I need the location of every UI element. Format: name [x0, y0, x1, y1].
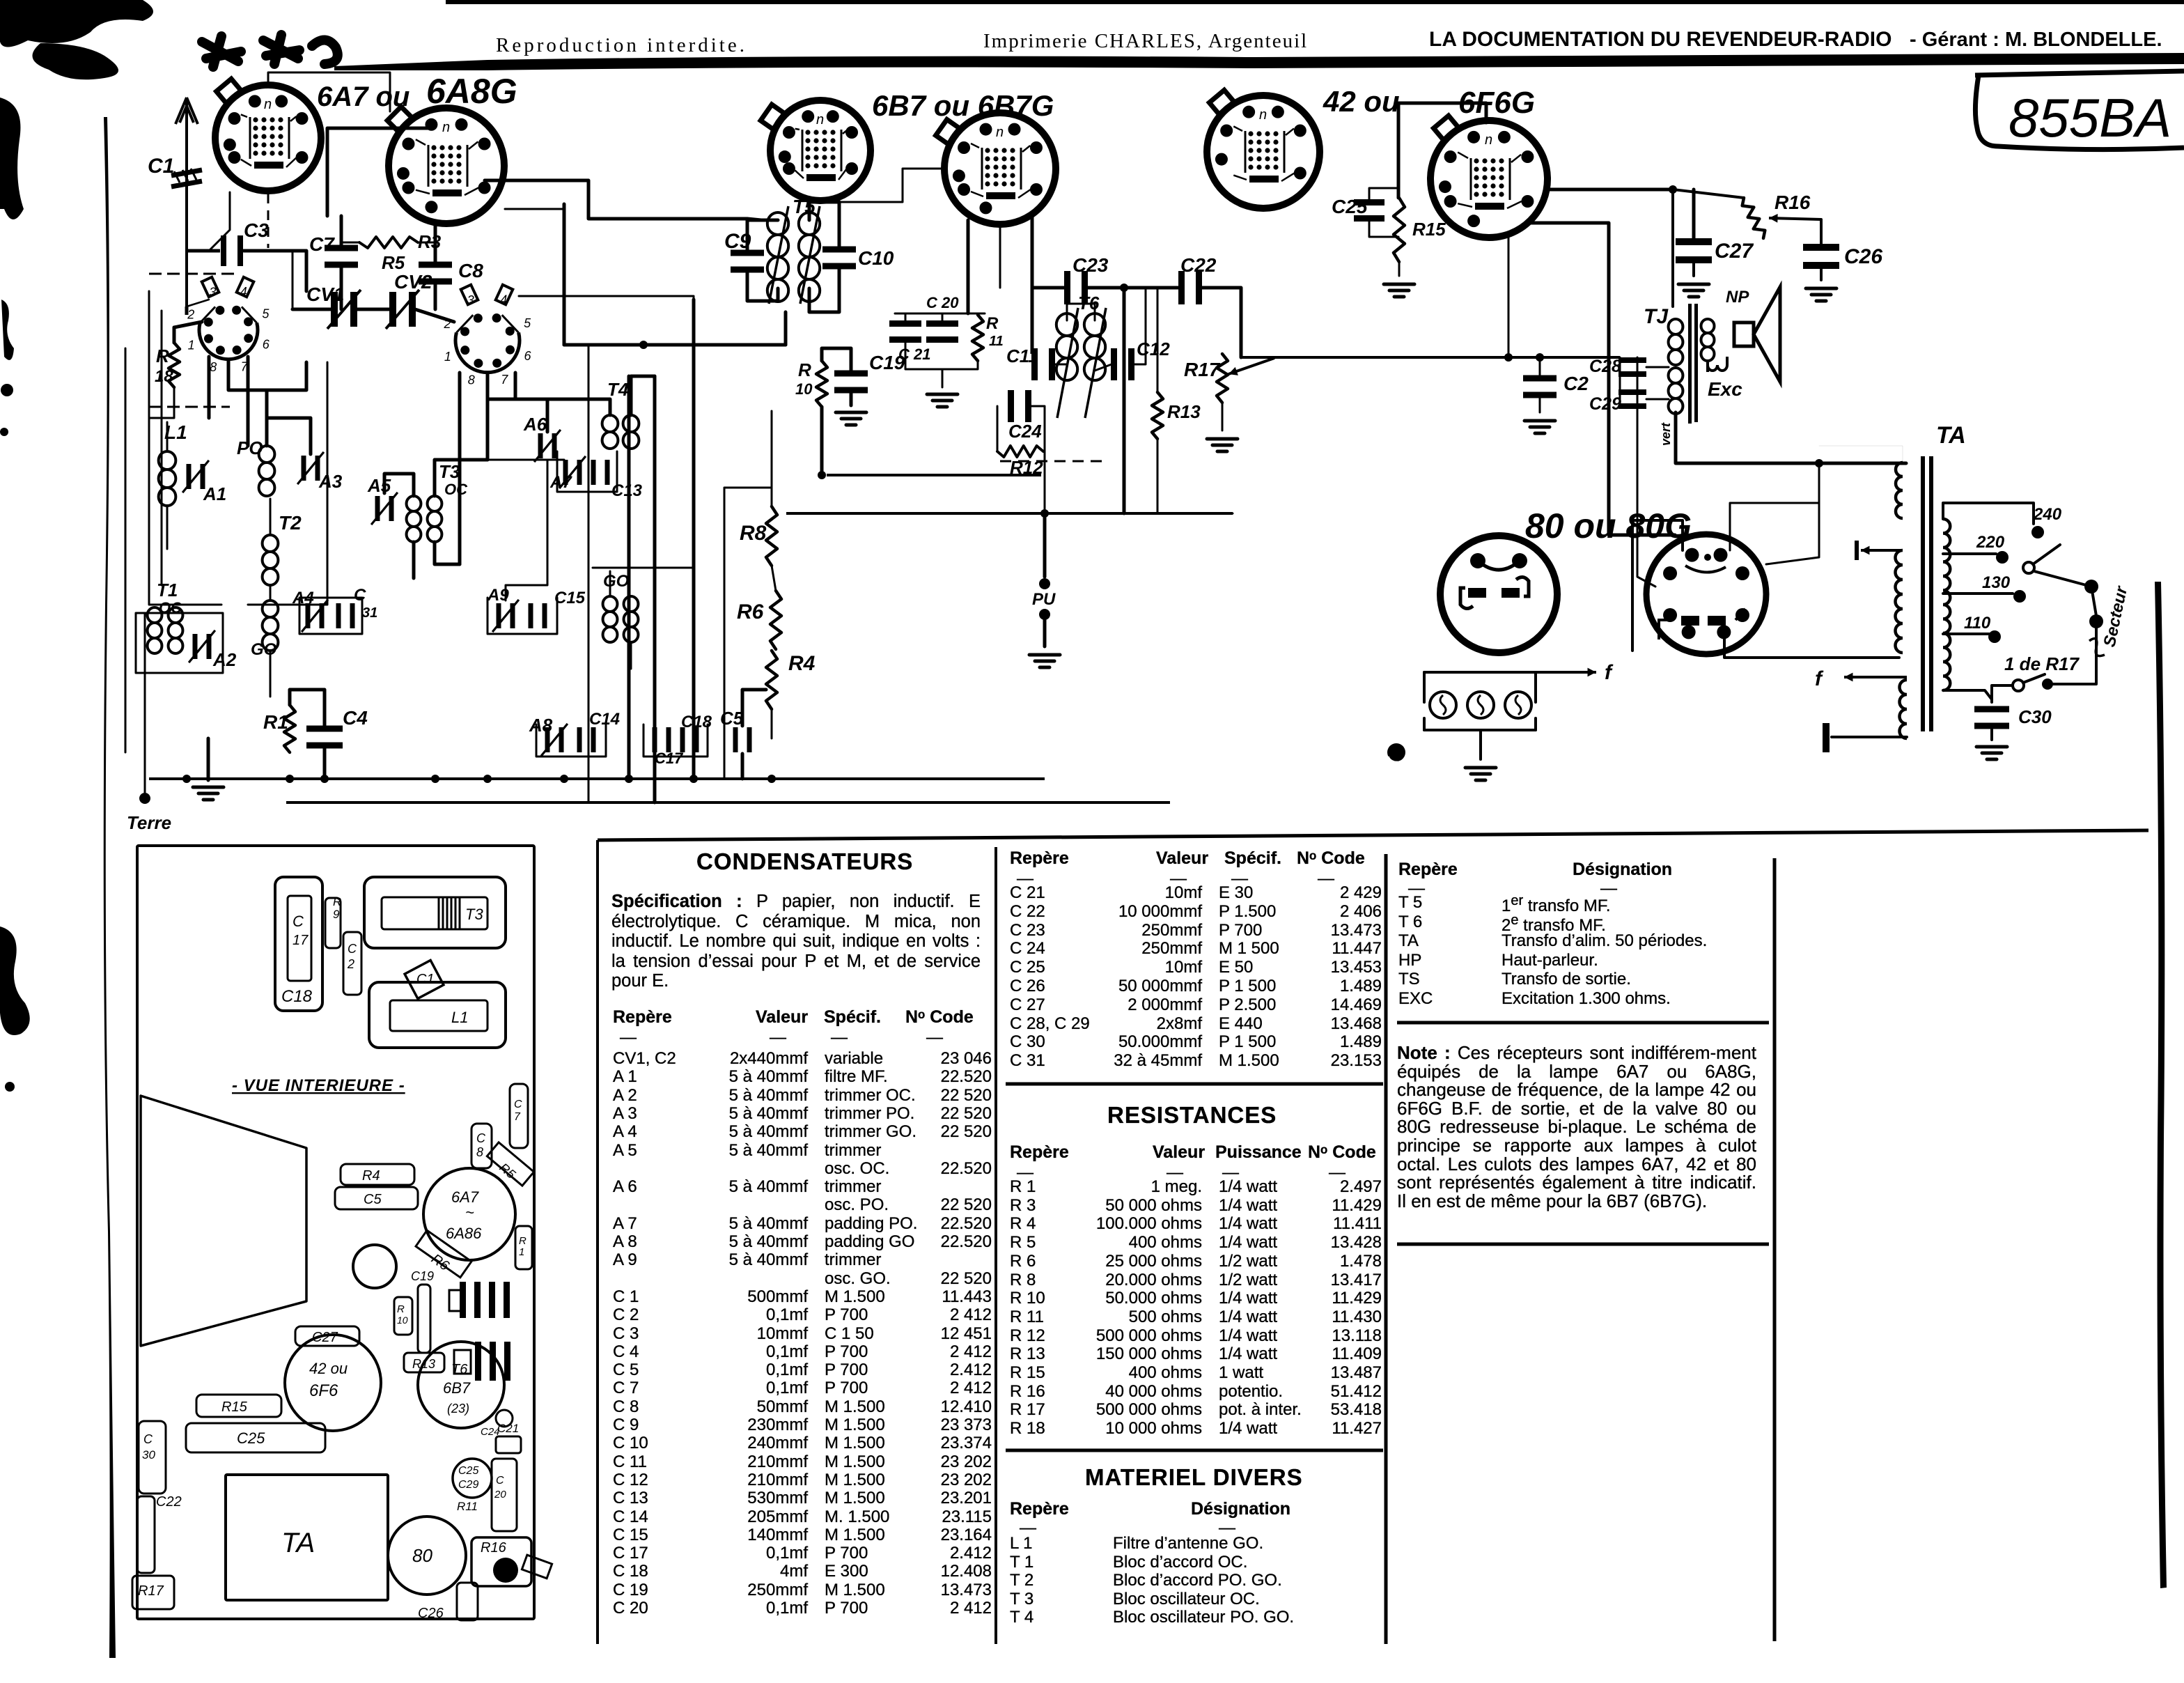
tap 240 dot	[2031, 526, 2044, 538]
capacitor C28	[1618, 357, 1646, 377]
chassis R10	[394, 1297, 412, 1335]
chassis T3 block	[364, 877, 506, 948]
capacitor C11	[1031, 348, 1055, 380]
capacitor C19	[834, 371, 868, 394]
capacitor C22	[1178, 271, 1202, 304]
svg-text:C26: C26	[418, 1606, 444, 1621]
capacitor C5	[733, 727, 752, 752]
wire T2 GO stems	[270, 499, 272, 535]
chassis tube 6B7 circle	[418, 1342, 504, 1428]
svg-text:A1: A1	[203, 483, 226, 504]
tube culot U5 42	[1207, 90, 1320, 208]
terre dot	[139, 793, 150, 804]
speaker	[1708, 287, 1780, 382]
wire x1614 vertical	[1123, 288, 1126, 513]
chassis trimmer bank 1 frame	[449, 1290, 463, 1311]
svg-text:Reproduction interdite.: Reproduction interdite.	[496, 34, 747, 56]
ground C20 cluster	[927, 394, 958, 407]
chassis R9	[325, 898, 341, 948]
wire vertical x810	[563, 204, 566, 345]
wire R16 top from B8	[1673, 189, 1744, 198]
svg-text:11: 11	[989, 334, 1004, 349]
svg-text:R15: R15	[1412, 219, 1446, 240]
T5 tuning arrows	[769, 206, 820, 304]
resistor R17	[1217, 354, 1228, 403]
svg-text:C17: C17	[655, 750, 684, 767]
wire vertical x996	[692, 300, 696, 779]
wire horizontal y425 S2 right	[519, 296, 694, 300]
chassis R16 box	[471, 1537, 531, 1586]
capacitor C26	[1803, 244, 1839, 269]
capacitor C30	[1974, 706, 2009, 729]
chassis R4	[341, 1164, 414, 1185]
svg-text:10: 10	[397, 1314, 408, 1326]
wire R1 C4 top	[290, 690, 325, 727]
wire bus B2	[786, 512, 1233, 515]
svg-text:8: 8	[468, 373, 475, 387]
EXC core	[1688, 362, 1692, 424]
ground C27	[1678, 284, 1709, 297]
TA wires top	[1819, 446, 1903, 463]
wire y660 extension	[487, 459, 564, 461]
tap 110 dot	[1988, 630, 2001, 643]
svg-text:Exc: Exc	[1708, 378, 1742, 400]
chassis C17 inner	[288, 896, 311, 981]
svg-text:42 ou: 42 ou	[309, 1360, 348, 1377]
svg-text:GO: GO	[603, 572, 630, 591]
wire 6F6G right pin B8	[1547, 188, 1673, 192]
svg-text:C23: C23	[1072, 254, 1109, 276]
wire T1 box	[136, 613, 223, 673]
svg-text:18: 18	[155, 367, 173, 386]
wire vertical x786 down	[506, 461, 547, 600]
svg-text:T3: T3	[439, 461, 460, 482]
wire A7 C13 bus	[557, 451, 617, 492]
wire C24 R12 frame	[997, 406, 999, 451]
capacitor C10	[822, 247, 856, 270]
chassis L1 inner	[390, 1000, 487, 1031]
PU terminal bottom	[1039, 609, 1050, 620]
wire S1 top tails	[187, 300, 209, 307]
chassis trimmer bank 1	[460, 1282, 510, 1318]
coil T1 secondary	[169, 607, 183, 653]
left margin speck c	[1, 384, 13, 396]
svg-text:A5: A5	[367, 475, 391, 496]
left margin blob d (lower)	[0, 926, 30, 1035]
svg-text:C18: C18	[281, 987, 313, 1006]
wire R5 ends	[341, 242, 359, 244]
svg-text:C 21: C 21	[898, 346, 930, 363]
TJ core	[1688, 304, 1698, 422]
wire L1 stems	[166, 422, 169, 451]
wire R8 chain	[771, 411, 773, 506]
svg-text:C24: C24	[1008, 421, 1042, 442]
coil L1 loops	[159, 451, 176, 506]
trimmer A6	[538, 433, 557, 458]
wire R13 stems	[1157, 288, 1159, 392]
svg-text:n: n	[1485, 132, 1492, 148]
ground C26	[1820, 267, 1823, 280]
capacitor C3	[221, 235, 243, 266]
resistor R18	[169, 343, 180, 387]
wire tube2 top to tube1 area	[268, 72, 390, 111]
wire R10 bottom	[820, 407, 824, 475]
chassis tube 80 circle	[388, 1517, 466, 1595]
svg-text:L1: L1	[451, 1009, 468, 1026]
top-left ink blob	[0, 0, 153, 47]
svg-text:f: f	[1815, 667, 1824, 690]
capacitor C18	[653, 727, 671, 752]
svg-text:TA: TA	[1936, 422, 1966, 449]
svg-text:- VUE INTERIEURE -: - VUE INTERIEURE -	[232, 1076, 405, 1095]
capacitor C20	[926, 320, 958, 343]
wire R18 top	[174, 322, 202, 343]
chassis tuning gang trapezoid	[141, 1096, 306, 1346]
arrow TA f	[1844, 673, 1907, 682]
wire lower bus B1b	[286, 801, 1170, 804]
trimmer A2	[193, 634, 212, 659]
top-left ink blob 2	[32, 43, 118, 79]
capacitor C2	[1523, 375, 1557, 398]
sheet number box 855BA	[1975, 71, 2184, 75]
coil PO	[259, 446, 275, 496]
tube culot U4 6B7G	[936, 113, 1056, 224]
tube culot U6 6F6G	[1430, 116, 1547, 238]
svg-text:CV1: CV1	[306, 284, 344, 305]
svg-text:C22: C22	[1180, 254, 1217, 276]
svg-text:NP: NP	[1726, 288, 1749, 307]
shield box left input 2	[161, 311, 163, 585]
tap 220 dot	[1996, 551, 2008, 564]
chassis C28 C29 circle	[453, 1459, 492, 1498]
trimmer A3	[302, 456, 320, 481]
chassis small circle C24	[496, 1410, 513, 1427]
svg-text:n: n	[996, 125, 1004, 140]
wire R10 C19 top	[822, 348, 851, 371]
coil T2 upper loops	[263, 535, 279, 585]
wire C11 to T6	[1055, 364, 1067, 366]
svg-text:20: 20	[494, 1489, 506, 1500]
svg-text:C29: C29	[1589, 394, 1621, 414]
svg-text:7: 7	[514, 1111, 521, 1123]
svg-text:Secteur: Secteur	[2100, 584, 2131, 649]
svg-text:n: n	[1259, 107, 1267, 123]
wire bus B4	[1241, 356, 1620, 359]
svg-text:R11: R11	[457, 1500, 478, 1513]
svg-text:240: 240	[2033, 505, 2062, 524]
ground stub below T1	[207, 738, 210, 780]
wire tube1 drop dashes	[267, 194, 270, 248]
left margin speck e	[5, 1082, 15, 1092]
cluster bus C20 C21 R11	[895, 313, 985, 315]
svg-text:855BA: 855BA	[2008, 87, 2171, 148]
wire T5 to 6B7G grid	[839, 169, 944, 202]
svg-text:A3: A3	[318, 471, 343, 492]
svg-text:C1: C1	[416, 972, 435, 987]
svg-text:n: n	[442, 120, 450, 135]
chassis C21 box	[496, 1436, 521, 1453]
capacitor CV marks	[680, 727, 699, 752]
wire TA filament bottom	[1832, 736, 1907, 738]
lamp 2	[1467, 692, 1494, 718]
svg-text:6: 6	[263, 338, 270, 352]
chassis R16 lug	[522, 1555, 552, 1579]
svg-text:GO: GO	[251, 640, 277, 659]
capacitor C13	[591, 460, 610, 485]
svg-text:42 ou: 42 ou	[1323, 85, 1400, 118]
wire T4 top	[487, 399, 610, 415]
capacitor C8	[419, 262, 452, 285]
wire GO top bus	[593, 567, 694, 569]
capacitor C7	[325, 245, 358, 268]
trimmer A7	[563, 460, 582, 485]
wire x2351	[1637, 357, 1655, 587]
table vertical rule left	[596, 840, 599, 1644]
svg-text:R1: R1	[263, 711, 288, 733]
chassis C17 C18 can	[275, 877, 322, 1011]
capacitor C27	[1676, 238, 1712, 263]
dial lamps box	[1424, 671, 1536, 674]
wire dashed AVC	[1000, 460, 1105, 463]
svg-text:T2: T2	[279, 512, 302, 534]
wire tube2 left pin to left	[327, 128, 430, 216]
wire tube2 bottom-right to AVC	[505, 208, 564, 210]
chassis R17 box	[132, 1576, 174, 1609]
wire tube2 right pin step to T5	[485, 180, 761, 220]
svg-text:(23): (23)	[447, 1402, 469, 1416]
svg-text:PU: PU	[1032, 590, 1056, 609]
trimmer A1	[187, 464, 205, 489]
C30 ground	[1990, 729, 1993, 740]
junction dots on bus	[182, 775, 191, 783]
arrow filament f	[1536, 668, 1596, 677]
svg-text:T4: T4	[607, 379, 629, 400]
svg-text:R13: R13	[412, 1357, 435, 1371]
wire R15 top loop	[1398, 103, 1486, 198]
ground C26	[1806, 288, 1836, 301]
wire B8 down to C27	[1692, 189, 1696, 240]
svg-text:T1: T1	[157, 580, 178, 600]
shield box outer vertical	[125, 348, 127, 752]
wire TJ bottom to TA B11	[1676, 412, 1906, 463]
wire interrupter to C30	[1992, 685, 2013, 702]
resistor R13	[1152, 392, 1163, 439]
svg-text:R6: R6	[737, 600, 764, 623]
left margin blob a	[0, 98, 24, 219]
chassis tube 42 circle	[285, 1335, 381, 1431]
svg-text:TA: TA	[281, 1528, 315, 1558]
ground R15	[1398, 262, 1401, 276]
lamp 1	[1430, 692, 1456, 718]
resistor R15	[1394, 198, 1405, 262]
rule under R18	[1006, 1449, 1383, 1452]
svg-text:1: 1	[519, 1246, 524, 1258]
chassis R1 box right	[515, 1226, 532, 1269]
svg-text:R: R	[333, 895, 341, 908]
wire A4 C31 bus	[299, 598, 362, 634]
ground R17	[1207, 439, 1238, 451]
wire antenna to C3 node	[187, 249, 220, 253]
chassis R15 box	[196, 1395, 281, 1417]
wire AVC bus B5	[564, 343, 786, 347]
svg-text:C19: C19	[411, 1269, 434, 1283]
wire T3 bottoms	[412, 542, 416, 578]
table vertical rule mid1	[994, 847, 997, 1644]
svg-text:30: 30	[142, 1448, 155, 1461]
table vertical rule mid2	[1384, 854, 1388, 1644]
wire B11 drop to socket	[1766, 463, 1819, 564]
trimmer A5	[375, 496, 394, 521]
arrow R16 wiper	[1769, 214, 1821, 223]
capacitor C9	[731, 250, 764, 273]
secteur dot 2	[2089, 614, 2103, 628]
chassis C30 can	[139, 1421, 166, 1494]
svg-text:10: 10	[795, 380, 813, 398]
capacitor C25	[1354, 199, 1384, 222]
page top printed rule	[334, 53, 2184, 70]
wire R17 bottom ground	[1222, 403, 1224, 431]
coil TA secondary	[1943, 519, 1950, 690]
wire PU drop	[1043, 513, 1047, 577]
svg-text:C25: C25	[1332, 196, 1368, 217]
coil T4 secondary	[623, 415, 639, 449]
svg-text:C: C	[143, 1432, 153, 1446]
svg-text:6F6: 6F6	[309, 1381, 338, 1400]
svg-text:C3: C3	[244, 219, 269, 241]
wire tube1 side drop	[209, 192, 230, 251]
resistor R1	[284, 705, 295, 752]
left page border bar	[104, 117, 116, 1658]
resistor R10	[816, 361, 827, 407]
svg-text:C: C	[514, 1099, 522, 1110]
wire vertical x903	[627, 376, 631, 779]
coil T6 secondary	[1084, 313, 1105, 380]
ground C30	[1976, 747, 2007, 759]
wire secteur down to interrupter	[2050, 621, 2096, 684]
svg-text:6B7: 6B7	[443, 1379, 471, 1397]
resistor R16	[1742, 198, 1765, 238]
wire 6F6G cathode drop	[1508, 234, 1510, 357]
ground C2	[1524, 421, 1555, 433]
coil T5 primary	[767, 212, 788, 302]
chassis outer box	[137, 846, 534, 1619]
svg-text:TJ: TJ	[1644, 305, 1669, 328]
svg-text:130: 130	[1982, 573, 2011, 592]
wire S2 drops	[458, 373, 462, 564]
lamps bottom bus	[1423, 718, 1426, 730]
trimmer CV1	[331, 292, 357, 327]
svg-text:5: 5	[524, 316, 531, 330]
svg-text:C27: C27	[1715, 240, 1754, 263]
svg-text:31: 31	[362, 605, 377, 621]
svg-text:R17: R17	[1184, 359, 1221, 380]
table top rule	[598, 830, 2148, 840]
svg-text:C4: C4	[343, 707, 368, 729]
ground symbol input	[193, 787, 224, 800]
coil GO loops	[263, 600, 279, 651]
wire R8 left branch	[724, 488, 772, 513]
PU terminal top	[1039, 578, 1050, 589]
svg-text:C7: C7	[309, 233, 335, 255]
svg-text:R4: R4	[362, 1168, 380, 1184]
wire C3 to CV1	[292, 251, 294, 309]
svg-text:C8: C8	[458, 260, 483, 281]
svg-text:C28: C28	[1589, 357, 1621, 376]
tap 130 dot	[2013, 590, 2026, 603]
chassis T3 inner	[382, 897, 487, 929]
svg-text:8: 8	[210, 360, 217, 374]
rule under EXC	[1397, 1021, 1769, 1025]
chassis R6 tilted	[416, 1230, 471, 1278]
coil EXC	[1669, 368, 1683, 414]
resistor R11	[972, 315, 983, 361]
coil TJ primary	[1669, 319, 1683, 365]
wire C23 C22 bus B7	[1032, 286, 1064, 290]
resistor R6	[770, 591, 781, 649]
chassis C5	[335, 1187, 418, 1209]
wire CV row	[292, 308, 331, 311]
chassis C20 strip	[492, 1459, 517, 1531]
svg-text:f: f	[1605, 661, 1614, 684]
svg-text:17: 17	[292, 933, 309, 948]
svg-text:C15: C15	[554, 589, 586, 607]
svg-text:T5: T5	[793, 196, 816, 217]
wire C28 C29 to EXC	[1619, 357, 1621, 367]
bus B2 to right extension	[1124, 513, 1233, 515]
coil T4 primary	[602, 415, 618, 449]
svg-text:C11: C11	[1006, 346, 1038, 366]
svg-text:C: C	[354, 586, 366, 605]
svg-text:6A7 ou: 6A7 ou	[317, 82, 409, 112]
svg-text:n: n	[264, 97, 272, 112]
TA core	[1921, 456, 1933, 731]
svg-text:OC: OC	[444, 481, 468, 498]
chassis C19 strip	[418, 1285, 430, 1353]
coil T6 primary	[1056, 313, 1077, 380]
svg-text:R8: R8	[740, 522, 767, 545]
svg-text:n: n	[816, 112, 824, 127]
svg-text:220: 220	[1976, 533, 2005, 552]
svg-text:C5: C5	[364, 1192, 382, 1207]
table vertical rule right	[1773, 858, 1777, 1641]
svg-text:80: 80	[412, 1545, 432, 1566]
secteur dot 1	[2084, 580, 2098, 594]
capacitor C29	[1618, 389, 1646, 409]
wire A3 top	[267, 418, 311, 454]
coil T1 primary	[148, 607, 162, 653]
svg-text:9: 9	[333, 908, 340, 921]
socket U8 external wires	[1632, 520, 1683, 651]
svg-text:C14: C14	[589, 710, 620, 729]
wire A9 bus	[487, 598, 557, 634]
wire PO top	[267, 362, 306, 446]
svg-text:PO: PO	[237, 437, 263, 458]
TA tap 110	[1943, 633, 1989, 635]
wire A5 T3 tops	[384, 474, 414, 496]
svg-text:LA DOCUMENTATION DU REVENDEUR-: LA DOCUMENTATION DU REVENDEUR-RADIO	[1429, 28, 1891, 51]
wire C24 down to PU	[1044, 451, 1046, 513]
chassis L1 block	[369, 982, 506, 1048]
wire nested box under tube1	[248, 362, 327, 605]
wire 6B7G pins down	[967, 220, 970, 313]
svg-text:C: C	[496, 1475, 504, 1487]
svg-text:R4: R4	[788, 652, 816, 675]
rule under note	[1397, 1243, 1769, 1246]
trimmer A9	[497, 603, 515, 628]
top-left handwritten marks	[202, 35, 338, 67]
svg-text:6: 6	[524, 349, 531, 363]
svg-text:6A86: 6A86	[446, 1225, 482, 1242]
